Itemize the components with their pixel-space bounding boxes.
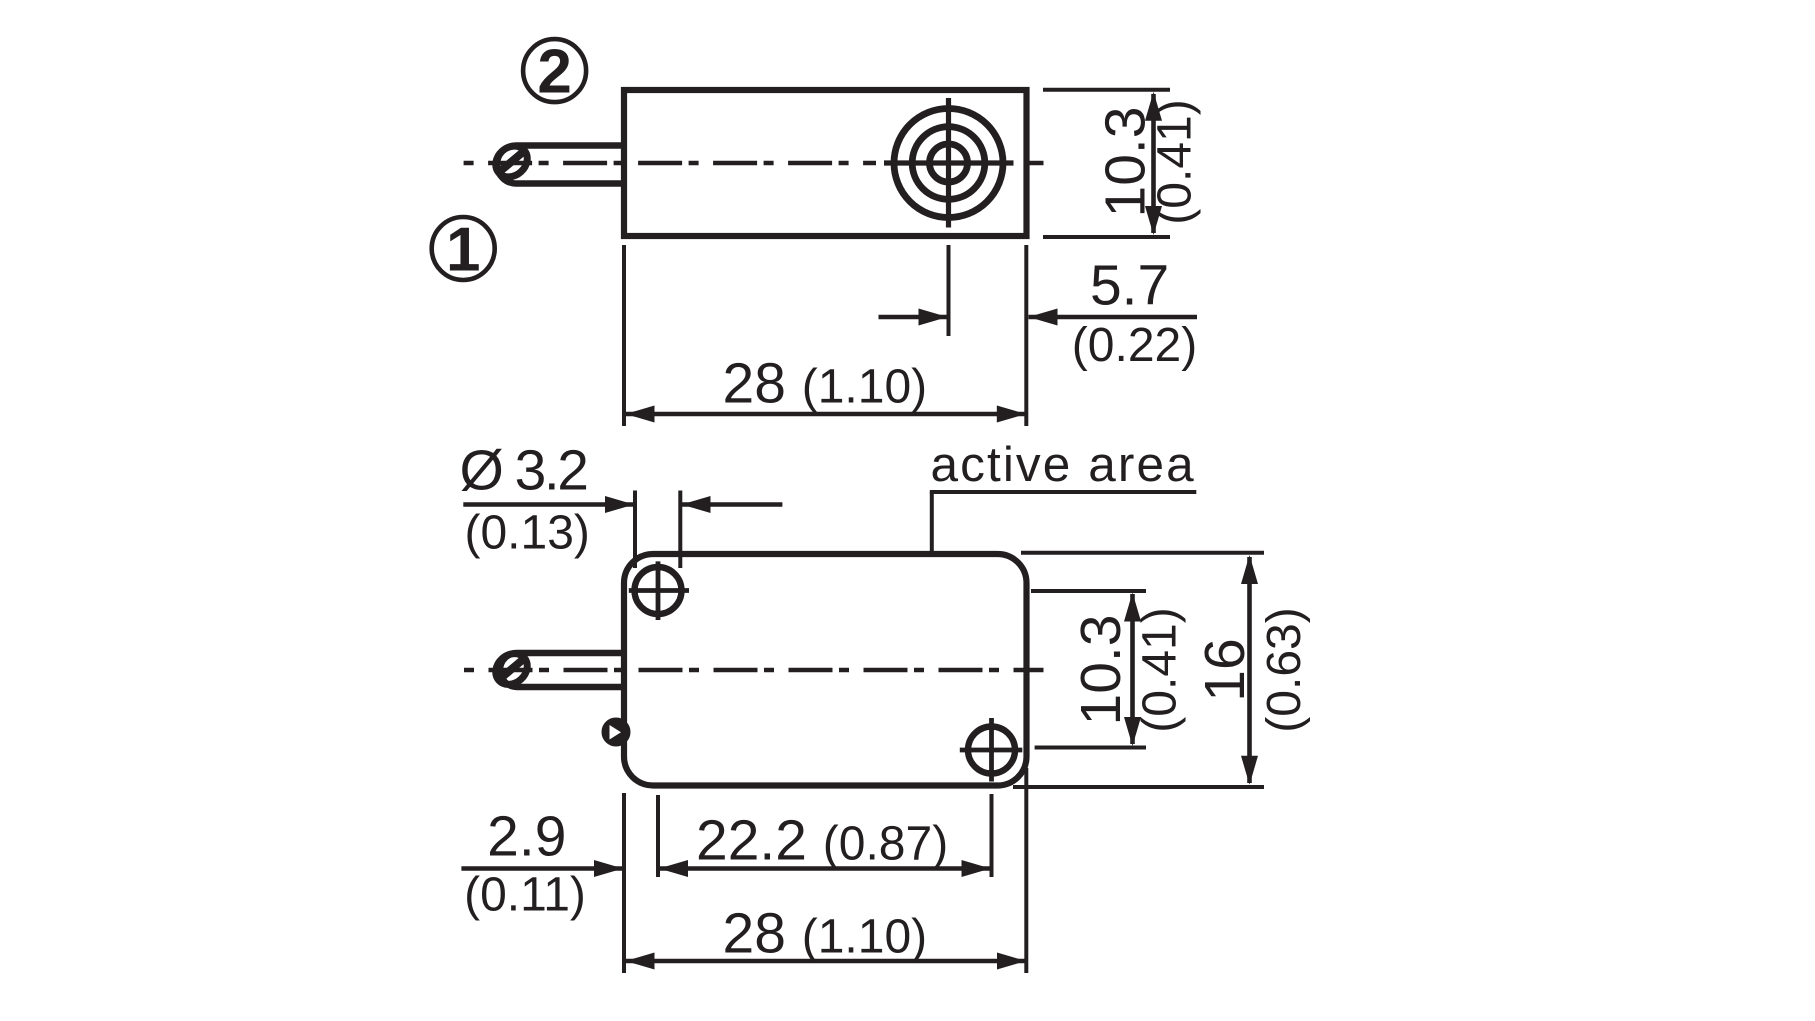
bottom view mounting hole bottom-right	[960, 718, 1023, 782]
svg-text:22.2 (0.87): 22.2 (0.87)	[696, 809, 948, 873]
top view body outline	[624, 90, 1027, 236]
svg-text:Ø 3.2: Ø 3.2	[460, 438, 587, 502]
top view cable	[497, 146, 624, 184]
svg-text:1: 1	[446, 215, 480, 284]
svg-text:(0.63): (0.63)	[1258, 607, 1311, 732]
svg-text:10.3: 10.3	[1069, 615, 1133, 726]
bottom view dim 2.9 (0.11)	[461, 793, 658, 973]
bottom view dim 28 (1.10)	[626, 768, 1027, 973]
bottom view dim 22.2 (0.87)	[659, 794, 992, 877]
svg-text:(0.11): (0.11)	[464, 869, 586, 922]
active area label and leader	[930, 437, 1197, 557]
svg-text:16: 16	[1193, 638, 1257, 701]
svg-text:28 (1.10): 28 (1.10)	[723, 901, 928, 965]
callout circled 1	[432, 215, 495, 284]
svg-text:28 (1.10): 28 (1.10)	[723, 351, 928, 415]
bottom view centerline	[464, 668, 1044, 673]
top view cable tip ellipse	[489, 140, 533, 184]
bottom view cable	[500, 653, 624, 687]
bottom view cable clamp screw	[604, 720, 627, 743]
top view active-area target circles	[884, 98, 1014, 228]
top view centerline	[464, 161, 1044, 166]
bottom view dim 10.3 (0.41) right	[1031, 591, 1187, 748]
svg-text:2: 2	[537, 38, 571, 107]
bottom view mounting hole top-left	[629, 561, 689, 620]
svg-text:5.7: 5.7	[1090, 254, 1169, 318]
top view dim 28 (1.10)	[624, 245, 1026, 426]
svg-text:(0.22): (0.22)	[1072, 319, 1197, 372]
svg-text:(0.41): (0.41)	[1134, 607, 1187, 732]
bottom view body outline	[624, 554, 1027, 786]
svg-text:(0.41): (0.41)	[1149, 99, 1202, 224]
bottom view dim Ø 3.2 (0.13)	[460, 438, 783, 568]
svg-text:(0.13): (0.13)	[465, 507, 590, 560]
top view dim 10.3 (0.41) right	[1043, 90, 1202, 237]
callout circled 2	[523, 38, 586, 107]
svg-text:2.9: 2.9	[487, 805, 566, 869]
bottom view cable tip ellipse	[489, 647, 533, 691]
svg-text:active area: active area	[931, 437, 1196, 492]
bottom view dim 16 (0.63) right	[1013, 553, 1311, 787]
top view dim 5.7 (0.22)	[879, 245, 1198, 426]
